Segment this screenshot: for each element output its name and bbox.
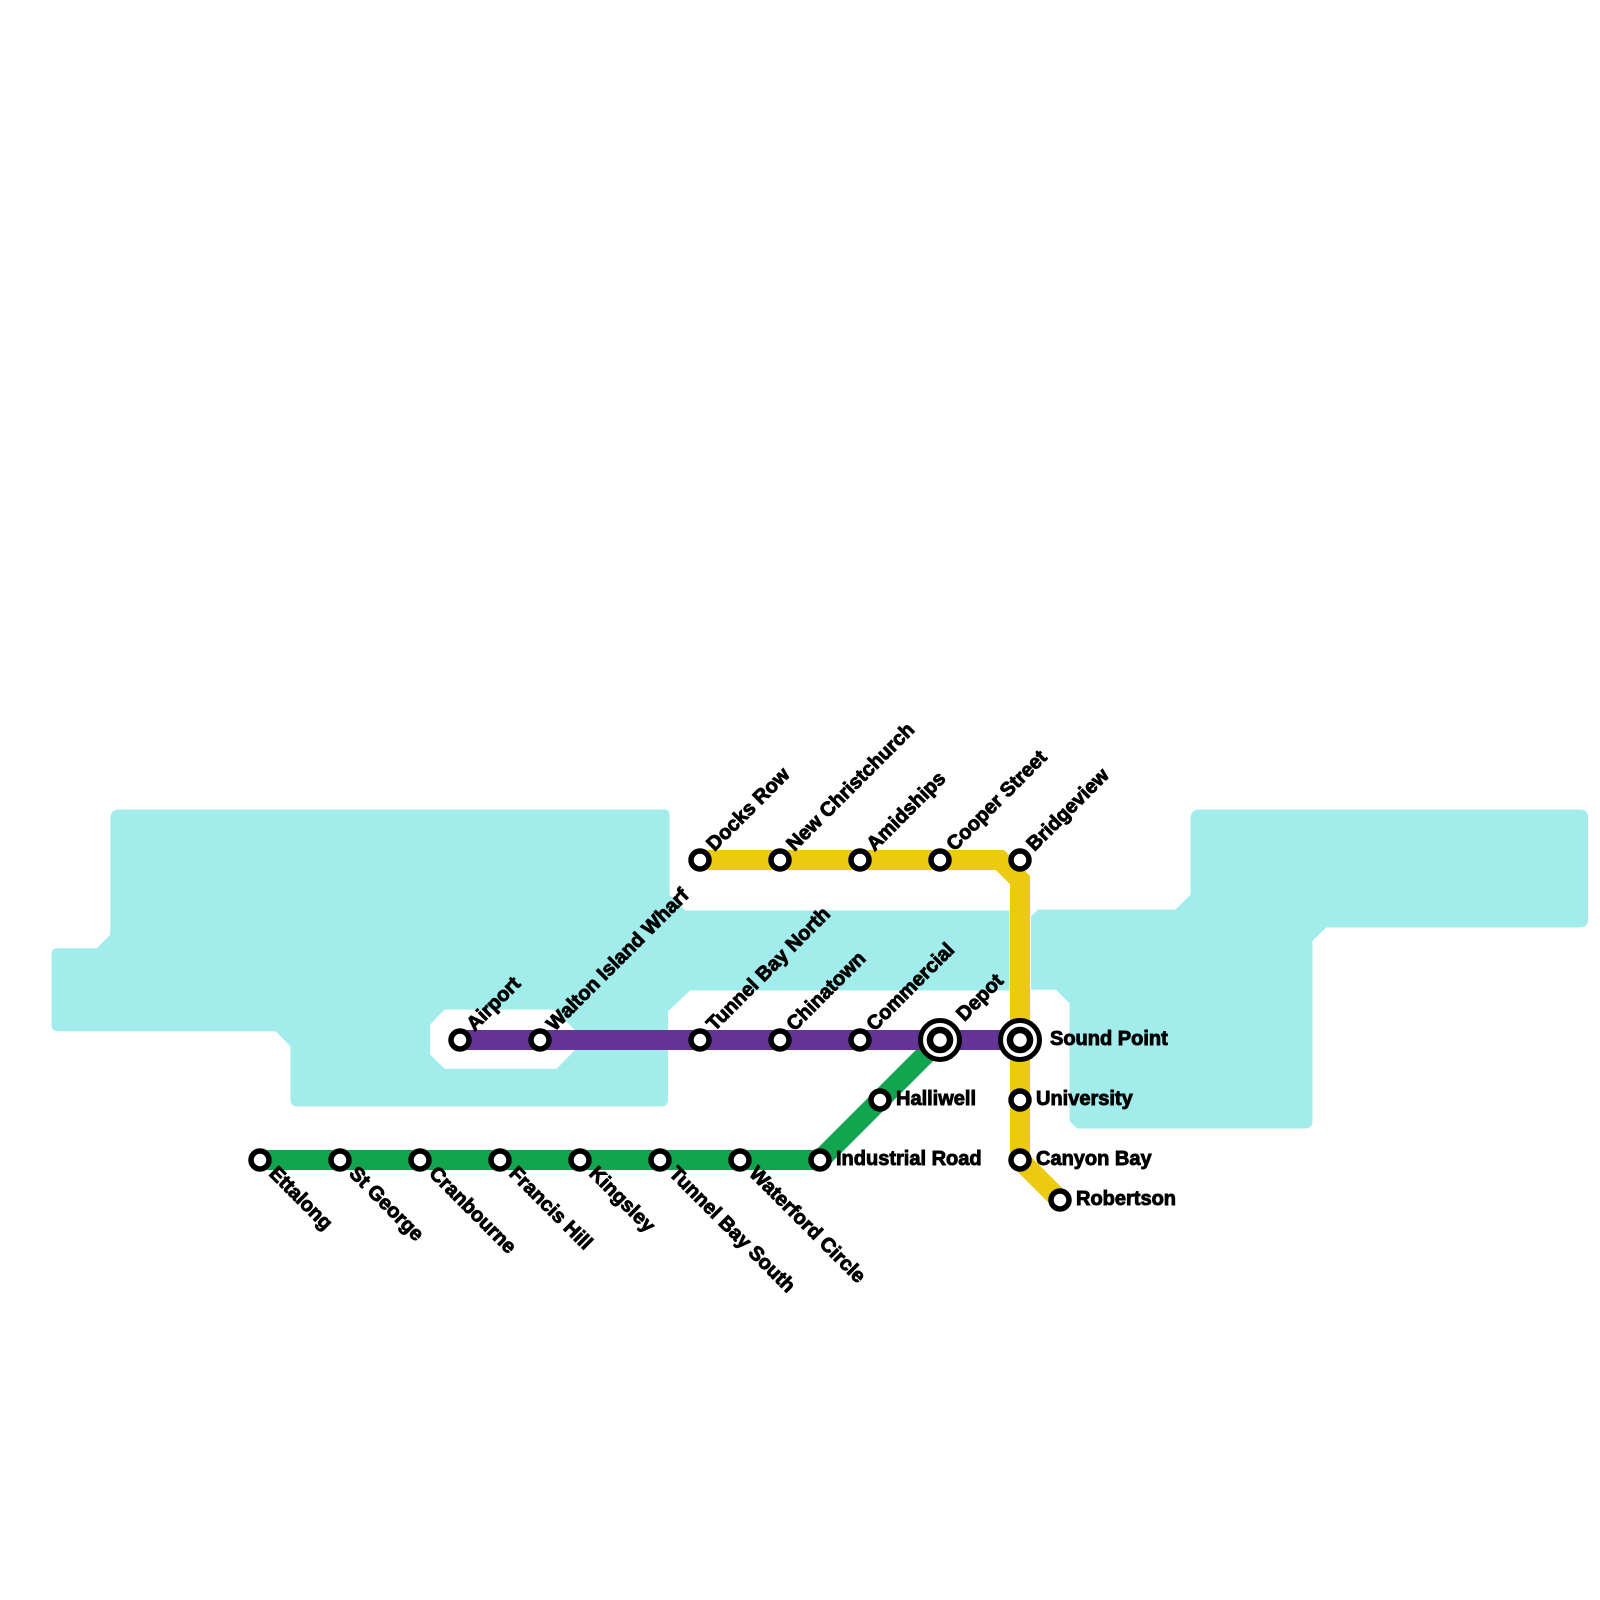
station University — [1011, 1091, 1029, 1109]
green line Ettalong to Depot — [260, 1040, 940, 1160]
station Commercial — [851, 1031, 869, 1049]
water west landmass and central channel — [52, 810, 1010, 1107]
station Airport — [451, 1031, 469, 1049]
svg-text:Sound Point: Sound Point — [1050, 1028, 1168, 1050]
white harbour bubble around Airport and Walton Island Wharf — [430, 1010, 576, 1069]
svg-text:Canyon Bay: Canyon Bay — [1036, 1148, 1152, 1170]
svg-text:Robertson: Robertson — [1076, 1188, 1176, 1210]
station Canyon Bay — [1011, 1151, 1029, 1169]
purple line Airport to Sound Point — [460, 1030, 1020, 1050]
station Ettalong — [251, 1151, 269, 1169]
station New Christchurch — [771, 851, 789, 869]
station Bridgeview — [1011, 851, 1029, 869]
station St George — [331, 1151, 349, 1169]
station Kingsley — [571, 1151, 589, 1169]
station Robertson — [1051, 1191, 1069, 1209]
station Amidships — [851, 851, 869, 869]
svg-text:Halliwell: Halliwell — [896, 1088, 976, 1110]
station Francis Hill — [491, 1151, 509, 1169]
station Tunnel Bay North — [691, 1031, 709, 1049]
interchange station Depot — [921, 1021, 960, 1060]
station Cooper Street — [931, 851, 949, 869]
station Walton Island Wharf — [531, 1031, 549, 1049]
svg-text:University: University — [1036, 1088, 1134, 1110]
station Docks Row — [691, 851, 709, 869]
station Waterford Circle — [731, 1151, 749, 1169]
svg-text:Industrial Road: Industrial Road — [836, 1148, 982, 1170]
water east landmass — [1031, 810, 1588, 1129]
interchange station Sound Point — [1001, 1021, 1040, 1060]
yellow line Docks Row to Robertson — [700, 860, 1060, 1200]
station Tunnel Bay South — [651, 1151, 669, 1169]
station Cranbourne — [411, 1151, 429, 1169]
station Halliwell — [871, 1091, 889, 1109]
station Industrial Road — [811, 1151, 829, 1169]
station Chinatown — [771, 1031, 789, 1049]
